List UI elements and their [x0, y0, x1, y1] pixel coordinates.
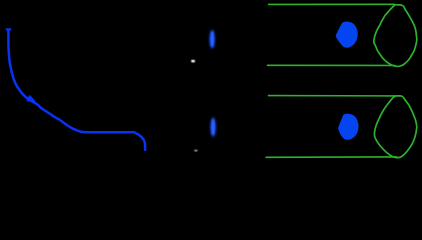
tube T1 top wall — [269, 3, 395, 5]
ion bunch B1 inside tube T1 — [336, 22, 358, 48]
trajectory start tick — [7, 28, 10, 30]
trajectory curve — [8, 31, 145, 150]
tube T2 bottom wall — [266, 156, 397, 158]
arrowhead on trajectory — [28, 96, 35, 101]
white dash marker (bottom) — [194, 150, 197, 152]
tube T2 top wall — [269, 95, 396, 97]
tube T1 bottom wall — [267, 64, 395, 66]
white dash marker (top) — [191, 60, 195, 62]
tube T1 opening (egg-shaped mouth) — [374, 5, 417, 67]
ion bunch B2 inside tube T2 — [338, 114, 358, 140]
lens L2 (bottom, blurred blue ellipse) — [211, 118, 216, 137]
tube T2 opening (egg-shaped mouth) — [374, 96, 416, 158]
lens L1 (top, blurred blue ellipse) — [210, 30, 215, 49]
